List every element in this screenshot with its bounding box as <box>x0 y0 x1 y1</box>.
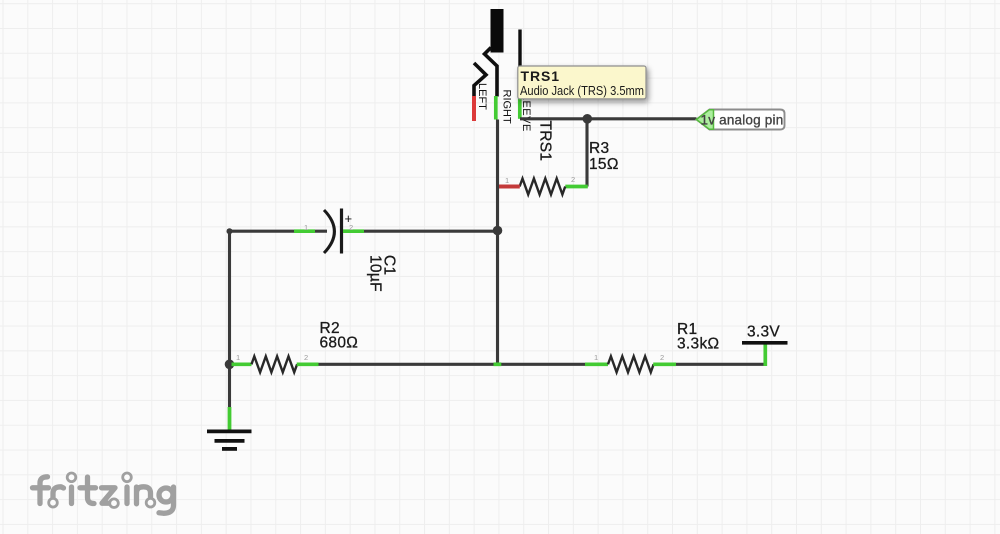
resistor R3 zigzag <box>520 179 566 195</box>
fritzing logo <box>33 477 174 514</box>
net flag green tip highlight <box>696 110 713 130</box>
resistor R3 pin2 lead (green) <box>565 185 588 189</box>
wire capacitor left segment <box>230 230 328 233</box>
corner dot <box>227 228 233 234</box>
wire junction down to R3 pin2 <box>585 119 588 187</box>
green riser to 3.3V <box>763 345 767 367</box>
svg-text:TRS1: TRS1 <box>537 121 554 162</box>
R1 pin2 lead (green) <box>653 362 676 366</box>
resistor R2 zigzag <box>252 356 298 372</box>
svg-text:1: 1 <box>236 353 240 362</box>
capacitor C1 curved plate <box>324 210 334 253</box>
svg-text:1: 1 <box>505 176 509 185</box>
pin SLEEVE (green) <box>518 96 522 119</box>
wire capacitor right segment <box>342 230 498 233</box>
R2 pin1 lead (green) <box>232 362 252 366</box>
C1 pin1 lead (green) <box>294 229 315 233</box>
wire capacitor corner down to R2 node <box>228 231 231 364</box>
ground pin (green) <box>228 407 232 430</box>
ground bar 1 <box>207 429 252 433</box>
svg-text:10µF: 10µF <box>367 255 384 292</box>
svg-text:2: 2 <box>571 175 575 184</box>
jack RING contact (LEFT) <box>474 63 486 97</box>
C1 pin2 lead (green) <box>343 229 364 233</box>
tooltip box <box>518 66 646 99</box>
R2 pin2 lead (green) <box>297 362 319 366</box>
wire R1 to 3.3V <box>676 363 765 366</box>
wire R2 node down to ground <box>228 364 231 408</box>
jack TIP contact (RIGHT) <box>485 48 498 97</box>
svg-text:3.3V: 3.3V <box>747 324 780 341</box>
svg-text:680Ω: 680Ω <box>320 335 359 352</box>
audio jack plug body (TRS1 symbol) <box>491 9 504 53</box>
junction node on top wire <box>583 114 593 124</box>
svg-text:15Ω: 15Ω <box>589 156 619 173</box>
svg-text:2: 2 <box>349 223 353 232</box>
resistor R1 zigzag <box>608 356 654 372</box>
wire RIGHT pin down the page <box>496 120 499 365</box>
green connection mark at T junction <box>494 362 502 366</box>
pin LEFT (red) <box>472 96 476 121</box>
power symbol 3.3V bar <box>742 341 788 345</box>
svg-text:1: 1 <box>594 353 598 362</box>
bottom wire R2 to R1 <box>319 363 586 366</box>
svg-text:2: 2 <box>304 353 308 362</box>
ground bar 3 <box>222 447 237 451</box>
svg-text:RIGHT: RIGHT <box>501 90 513 125</box>
junction dot capacitor net <box>493 226 503 236</box>
pin RIGHT (green) <box>494 96 498 120</box>
svg-text:1v analog pin: 1v analog pin <box>701 112 784 127</box>
junction dot R2 node <box>225 360 235 370</box>
capacitor C1 straight plate <box>340 209 343 254</box>
svg-text:TRS1: TRS1 <box>521 68 560 84</box>
R1 pin1 lead (green) <box>585 362 608 366</box>
wire SLEEVE to analog pin flag <box>520 117 697 120</box>
svg-text:2: 2 <box>660 353 664 362</box>
svg-text:Audio Jack (TRS) 3.5mm: Audio Jack (TRS) 3.5mm <box>520 83 644 98</box>
svg-text:R3: R3 <box>589 140 609 157</box>
ground bar 2 <box>215 439 245 443</box>
svg-text:LEFT: LEFT <box>476 83 488 110</box>
svg-text:1: 1 <box>304 223 308 232</box>
jack SLEEVE lead <box>518 30 521 97</box>
svg-text:3.3kΩ: 3.3kΩ <box>677 336 719 353</box>
net flag "1v analog pin" outline <box>697 110 785 130</box>
red wire RIGHT-net to R3 pin1 <box>498 185 520 189</box>
